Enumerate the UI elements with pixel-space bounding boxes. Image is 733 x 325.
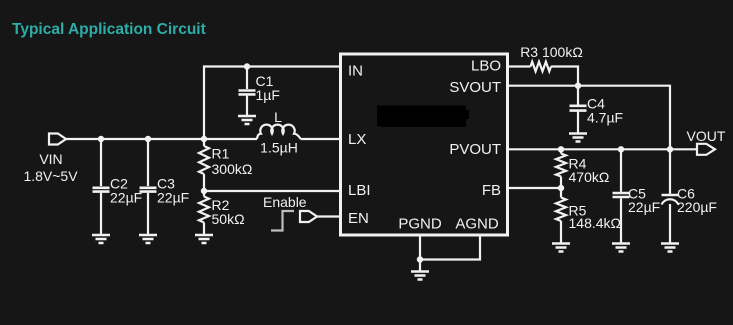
wire R3 to SVOUT node <box>551 67 578 86</box>
ground R5 <box>552 244 570 252</box>
wire R2 to ground <box>203 223 205 236</box>
ground PGND/AGND <box>411 272 429 280</box>
wire FB line <box>508 187 562 189</box>
capacitor C1 <box>239 89 256 92</box>
svg-text:Typical Application Circuit: Typical Application Circuit <box>12 21 206 38</box>
wire R5 to ground <box>560 221 562 244</box>
wire C6 to ground <box>669 204 671 244</box>
svg-text:Enable: Enable <box>263 194 307 210</box>
svg-text:LBI: LBI <box>348 182 371 199</box>
label C1 value <box>256 73 280 103</box>
resistor R3 <box>531 62 552 72</box>
resistor R5 <box>556 198 566 222</box>
port Enable arrow <box>300 211 317 222</box>
ground C2 <box>92 235 110 243</box>
capacitor C5 <box>613 192 630 195</box>
wire PGND down <box>419 236 421 260</box>
label R5 value <box>569 202 622 231</box>
svg-text:1.8V~5V: 1.8V~5V <box>23 168 78 184</box>
wire ground stub <box>419 260 421 272</box>
ground C5 <box>612 244 630 252</box>
label VIN <box>23 151 78 184</box>
ground C1 <box>238 116 256 124</box>
svg-text:22µF: 22µF <box>157 190 189 206</box>
svg-text:148.4kΩ: 148.4kΩ <box>569 215 622 231</box>
resistor R1 <box>199 146 209 174</box>
wire VIN node to R1 <box>203 139 205 146</box>
svg-text:22µF: 22µF <box>110 190 142 206</box>
label C2 value <box>110 176 142 206</box>
svg-text:22µF: 22µF <box>628 199 660 215</box>
enable step waveform <box>271 211 294 231</box>
svg-text:VIN: VIN <box>39 151 62 167</box>
wire EN line <box>317 215 341 217</box>
svg-text:PGND: PGND <box>398 216 442 233</box>
wire C1 to ground <box>246 96 248 116</box>
node junction dot 6 <box>575 83 581 89</box>
inductor L <box>257 125 301 139</box>
svg-text:4.7µF: 4.7µF <box>587 110 623 126</box>
port VOUT arrow <box>697 144 715 155</box>
svg-text:50kΩ: 50kΩ <box>212 211 245 227</box>
label R2 value <box>212 197 245 227</box>
node junction dot 7 <box>667 146 673 152</box>
svg-text:PVOUT: PVOUT <box>449 141 501 158</box>
label C4 value <box>587 96 623 126</box>
wire PVOUT line <box>508 148 698 150</box>
wire AGND down and across <box>420 236 480 260</box>
label C6 value <box>677 186 717 216</box>
svg-text:L: L <box>274 109 282 125</box>
svg-text:1µF: 1µF <box>256 87 280 103</box>
label C5 value <box>628 186 660 216</box>
svg-text:300kΩ: 300kΩ <box>212 161 253 177</box>
svg-text:VOUT: VOUT <box>687 128 726 144</box>
svg-text:220µF: 220µF <box>677 199 717 215</box>
wire C6 stub <box>669 149 671 194</box>
wire VIN line <box>66 138 257 140</box>
wire R4 stub <box>560 149 562 153</box>
svg-text:FB: FB <box>482 182 501 199</box>
label C3 value <box>157 176 189 206</box>
wire C3 stub <box>147 139 149 186</box>
wire C1 stub <box>246 67 248 90</box>
node junction dot 8 <box>558 146 564 152</box>
label R1 value <box>212 146 253 178</box>
wire C4 to ground <box>577 111 579 133</box>
ground C3 <box>139 235 157 243</box>
node junction dot 5 <box>201 188 207 194</box>
svg-text:R1: R1 <box>212 146 230 162</box>
node junction dot 11 <box>417 256 423 262</box>
ground C6 <box>661 244 679 252</box>
label R4 value <box>569 155 610 185</box>
node junction dot 10 <box>558 185 564 191</box>
capacitor C3 <box>140 187 157 190</box>
ground R2 <box>195 235 213 243</box>
svg-text:SVOUT: SVOUT <box>449 79 501 96</box>
ground C4 <box>569 134 587 142</box>
wire LBI line <box>204 190 341 192</box>
capacitor C2 <box>93 187 110 190</box>
wire vertical VIN node to IN top wire <box>204 67 341 140</box>
wire C5 stub <box>620 149 622 192</box>
svg-text:LX: LX <box>348 131 366 148</box>
wire LX line <box>301 138 341 140</box>
svg-text:470kΩ: 470kΩ <box>569 169 610 185</box>
wire C3 to ground <box>147 193 149 235</box>
wire R4 to FB node <box>560 177 562 198</box>
port VIN arrow <box>49 134 66 145</box>
svg-text:LBO: LBO <box>471 58 501 75</box>
svg-text:IN: IN <box>348 63 363 80</box>
svg-text:AGND: AGND <box>455 216 499 233</box>
svg-text:R3 100kΩ: R3 100kΩ <box>520 44 583 60</box>
wire SVOUT line <box>508 86 671 150</box>
svg-text:EN: EN <box>348 210 369 227</box>
capacitor C6 polarized <box>662 194 679 197</box>
redacted part number box <box>377 106 469 128</box>
wire C2 stub <box>100 139 102 186</box>
node junction dot 4 <box>244 63 250 69</box>
node junction dot 1 <box>98 136 104 142</box>
node junction dot 2 <box>145 136 151 142</box>
resistor R4 <box>556 154 566 177</box>
wire R1 to LBI node <box>203 174 205 197</box>
node junction dot 3 <box>201 136 207 142</box>
capacitor C4 <box>570 105 587 108</box>
wire C4 stub <box>577 86 579 105</box>
wire C5 to ground <box>620 198 622 243</box>
op-amp U1 IC body <box>341 54 508 235</box>
node junction dot 9 <box>618 146 624 152</box>
wire LBO to R3 <box>508 65 531 67</box>
wire C2 to ground <box>100 193 102 235</box>
svg-text:1.5µH: 1.5µH <box>260 140 298 156</box>
resistor R2 <box>199 197 209 223</box>
